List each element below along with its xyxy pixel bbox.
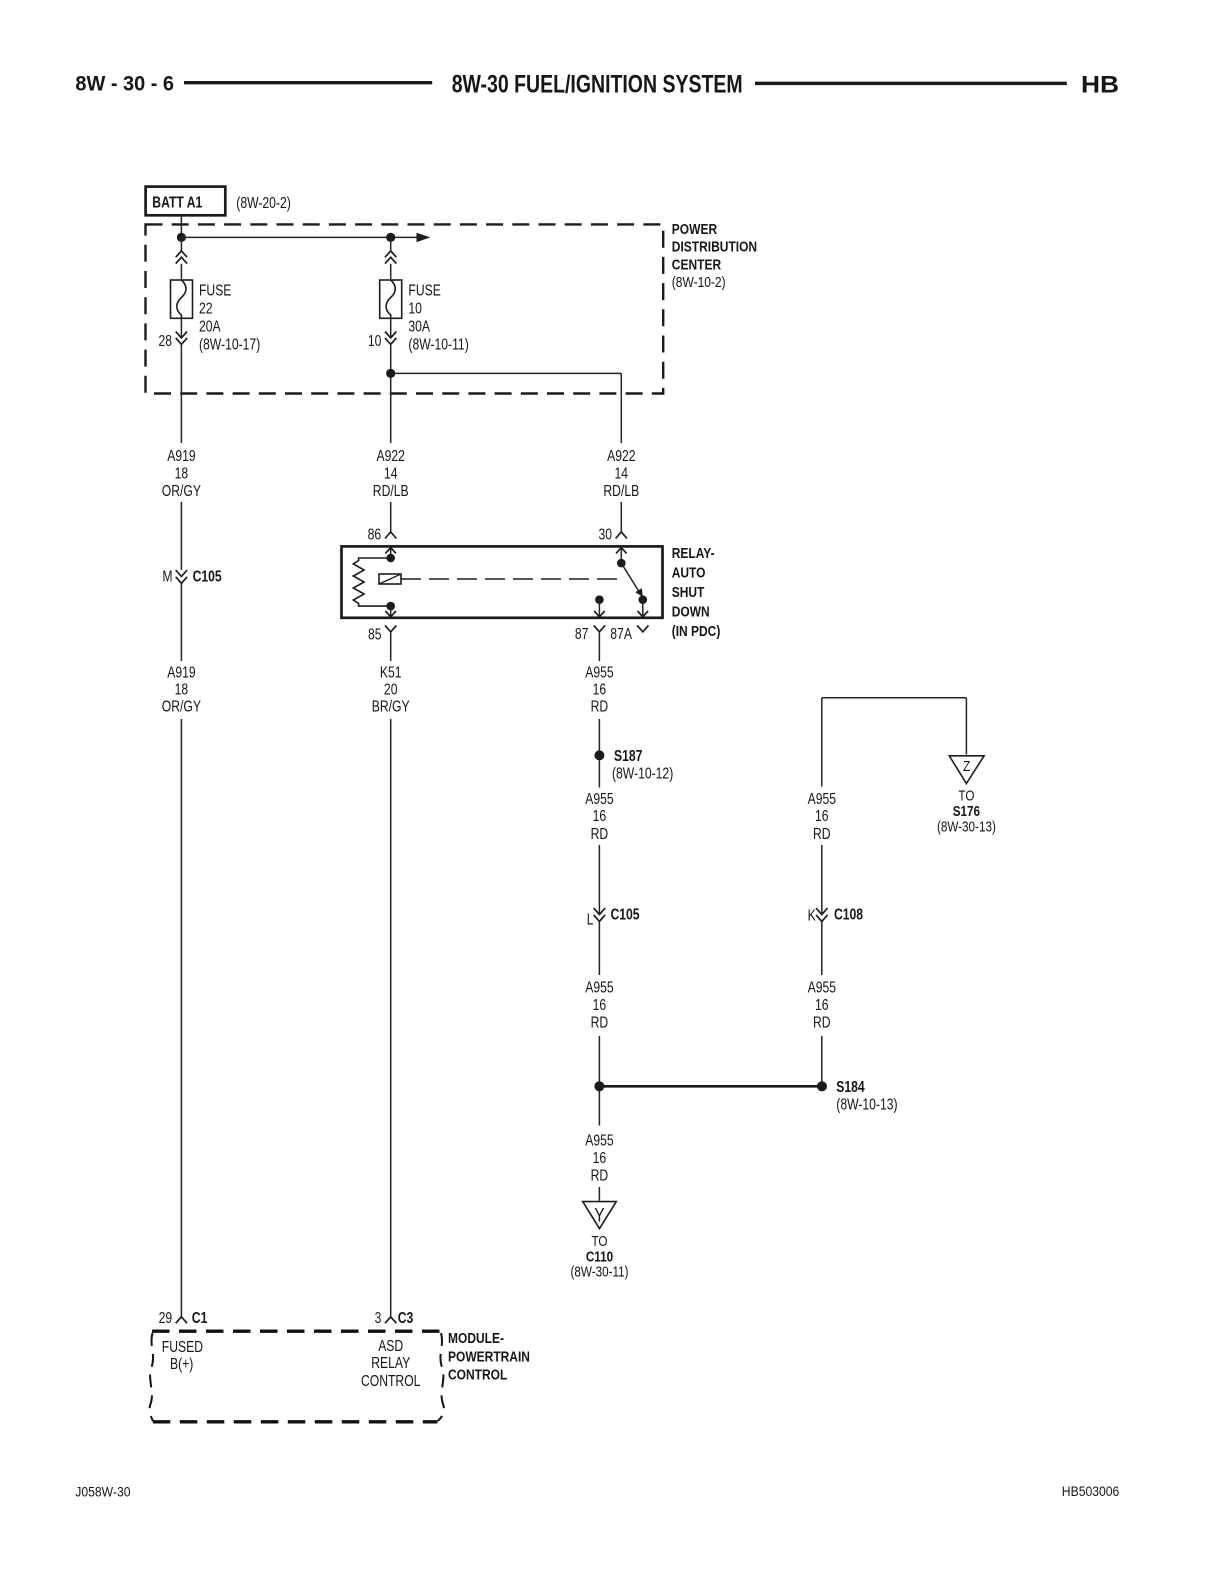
wire: S176 branch horizontal	[822, 697, 967, 699]
svg-text:TO: TO	[958, 787, 974, 804]
module label MODULE-POWERTRAIN CONTROL	[448, 1330, 530, 1383]
wire A955 from pin 87	[598, 632, 600, 661]
svg-text:RD: RD	[591, 1167, 609, 1185]
fuse F10 (FUSE 10 30A)	[380, 280, 402, 318]
svg-text:L: L	[587, 911, 594, 929]
wire A955 below junction	[598, 1091, 600, 1126]
svg-text:(8W-10-2): (8W-10-2)	[672, 274, 726, 291]
svg-text:SHUT: SHUT	[672, 584, 705, 601]
relay switch lever with arrowhead	[621, 563, 643, 597]
svg-text:(IN PDC): (IN PDC)	[672, 623, 721, 640]
svg-text:A922: A922	[607, 447, 635, 465]
relay box (auto shut down relay)	[342, 546, 663, 617]
svg-text:RD: RD	[591, 825, 609, 843]
svg-text:(8W-30-11): (8W-30-11)	[570, 1263, 628, 1280]
svg-text:14: 14	[384, 465, 398, 483]
wire A955 branch down from horizontal	[821, 698, 823, 787]
svg-text:16: 16	[815, 996, 829, 1014]
svg-text:8W - 30 - 6: 8W - 30 - 6	[75, 72, 174, 96]
relay pin 87A internal lead with arrow	[638, 600, 649, 617]
svg-text:Y: Y	[594, 1204, 605, 1226]
relay pin 87 female terminal below box	[594, 625, 605, 631]
splice S184	[817, 1081, 827, 1091]
POWER DISTRIBUTION CENTER dashed box	[146, 224, 664, 393]
node: bus junction at fuse 10	[386, 233, 395, 242]
svg-text:POWERTRAIN: POWERTRAIN	[448, 1348, 530, 1365]
wire label A955 16 RD (branch lower)	[808, 979, 836, 1032]
svg-text:87: 87	[575, 625, 589, 643]
svg-text:14: 14	[615, 465, 629, 483]
relay coil	[353, 558, 390, 606]
svg-text:B(+): B(+)	[170, 1355, 193, 1373]
powertrain control module box (dashed, torn edges)	[150, 1331, 444, 1422]
svg-text:CONTROL: CONTROL	[448, 1366, 507, 1383]
connector chevrons above fuse 10	[385, 251, 396, 264]
wire: battery bus horizontal	[181, 236, 417, 238]
svg-text:M: M	[162, 568, 172, 586]
wire A922 to relay pin 30	[620, 502, 622, 532]
wire: A922 horizontal branch	[391, 372, 622, 374]
connector chevrons below fuse 10	[385, 332, 396, 345]
svg-text:18: 18	[175, 681, 189, 699]
svg-text:20A: 20A	[199, 318, 221, 336]
connector chevrons above fuse 22	[176, 251, 187, 264]
node: A922 junction in PDC	[386, 369, 395, 378]
wire: S176 branch down to Z link	[965, 698, 967, 755]
svg-text:A955: A955	[808, 979, 836, 997]
fuse F22 (FUSE 22 20A)	[171, 280, 193, 318]
svg-text:Z: Z	[963, 758, 970, 775]
node: relay common	[617, 559, 626, 568]
wire: A922 branch down to relay pin 30	[620, 373, 622, 443]
svg-text:(8W-10-17): (8W-10-17)	[199, 336, 260, 354]
node: relay contact 87	[595, 595, 604, 604]
svg-text:FUSED: FUSED	[162, 1338, 203, 1356]
relay pin 87A female terminal below box	[637, 625, 648, 631]
wire label A955 16 RD (branch upper)	[808, 790, 836, 843]
svg-text:(8W-10-13): (8W-10-13)	[836, 1096, 897, 1114]
off-page link Y to C110	[583, 1202, 617, 1229]
wire label A919 18 OR/GY (lower)	[162, 664, 202, 716]
svg-text:S176: S176	[953, 803, 980, 820]
svg-text:RD/LB: RD/LB	[373, 482, 409, 500]
svg-text:RD/LB: RD/LB	[603, 482, 639, 500]
PCM pin 29 function label FUSED B(+)	[162, 1338, 203, 1373]
svg-text:OR/GY: OR/GY	[162, 482, 202, 500]
svg-text:HB503006: HB503006	[1062, 1483, 1120, 1499]
svg-text:(8W-30-13): (8W-30-13)	[937, 818, 996, 835]
svg-text:16: 16	[593, 808, 607, 826]
wire: fuse 10 to terminal 10	[390, 318, 392, 338]
svg-text:RD: RD	[813, 1014, 831, 1032]
PCM connector pin 3 C3	[375, 1309, 414, 1327]
wire A955 branch to S184	[821, 1036, 823, 1082]
svg-text:CONTROL: CONTROL	[361, 1372, 421, 1390]
wire label A922 14 RD/LB (right)	[603, 447, 639, 500]
wire: S184 tie horizontal	[599, 1085, 822, 1088]
svg-text:3: 3	[375, 1309, 382, 1327]
wire label A922 14 RD/LB (left)	[373, 447, 409, 500]
relay pin 86 female terminal	[385, 532, 396, 539]
svg-text:RELAY: RELAY	[371, 1354, 410, 1372]
svg-text:8W-30 FUEL/IGNITION SYSTEM: 8W-30 FUEL/IGNITION SYSTEM	[452, 70, 743, 98]
svg-text:29: 29	[159, 1309, 173, 1327]
wire: fuse 10 feed	[390, 237, 392, 251]
wire: fuse 22 to terminal 28	[180, 318, 182, 338]
svg-text:RD: RD	[591, 1014, 609, 1032]
svg-text:BR/GY: BR/GY	[372, 698, 410, 716]
wire A955 to S184 junction	[598, 1036, 600, 1082]
node: relay coil top	[386, 554, 395, 563]
svg-text:A955: A955	[808, 790, 836, 808]
svg-text:J058W-30: J058W-30	[75, 1484, 130, 1500]
wire A955 to C110 link	[598, 1187, 600, 1202]
svg-text:(8W-20-2): (8W-20-2)	[236, 195, 290, 213]
relay armature symbol	[379, 574, 401, 584]
node: relay contact 87A	[639, 595, 648, 604]
svg-text:A955: A955	[585, 790, 613, 808]
svg-text:RD: RD	[591, 698, 609, 716]
wire A955 below S187	[598, 760, 600, 788]
svg-text:(8W-10-12): (8W-10-12)	[612, 765, 673, 783]
svg-text:16: 16	[593, 1149, 607, 1167]
wire A955 to splice S187	[598, 719, 600, 751]
wire label A955 16 RD (above C105)	[585, 790, 613, 843]
svg-text:C108: C108	[834, 906, 863, 924]
svg-text:A955: A955	[585, 664, 613, 682]
relay label RELAY-AUTO SHUT DOWN (IN PDC)	[672, 545, 721, 639]
splice label S184 (8W-10-13)	[836, 1078, 897, 1114]
splice label S187 (8W-10-12)	[612, 747, 673, 782]
wire A955 to C105	[598, 845, 600, 915]
svg-text:OR/GY: OR/GY	[162, 698, 202, 716]
svg-text:A955: A955	[585, 1132, 613, 1150]
relay pin 87 internal lead with arrow	[594, 600, 605, 617]
PCM connector pin 29 C1	[159, 1309, 208, 1327]
svg-text:16: 16	[593, 681, 607, 699]
PDC label POWER DISTRIBUTION CENTER (8W-10-2)	[672, 221, 757, 291]
svg-text:28: 28	[158, 332, 172, 350]
svg-text:22: 22	[199, 300, 213, 318]
header rule right	[755, 82, 1067, 86]
svg-text:16: 16	[593, 996, 607, 1014]
header rule left	[184, 81, 432, 84]
wire A922 to relay pin 86	[390, 502, 392, 532]
svg-text:CENTER: CENTER	[672, 256, 721, 273]
connector C105 cavity M	[162, 568, 221, 586]
PCM pin 3 function label ASD RELAY CONTROL	[361, 1337, 421, 1390]
svg-text:85: 85	[368, 626, 382, 644]
wire A919 inside PDC	[180, 344, 182, 443]
svg-text:HB: HB	[1081, 72, 1119, 99]
svg-text:30A: 30A	[408, 318, 430, 336]
connector C108 cavity K	[808, 906, 863, 925]
splice S187	[594, 750, 604, 760]
svg-text:86: 86	[368, 526, 382, 544]
svg-text:10: 10	[408, 300, 422, 318]
wire label A955 16 RD (above S184 row)	[585, 979, 613, 1032]
svg-text:POWER: POWER	[672, 221, 717, 238]
relay pin 85 female terminal below box	[385, 625, 396, 631]
svg-text:ASD: ASD	[378, 1337, 403, 1355]
wire: BATT A1 stub into PDC	[180, 216, 182, 234]
fuse 22 labels	[199, 282, 260, 354]
svg-text:C110: C110	[586, 1248, 613, 1265]
svg-text:DOWN: DOWN	[672, 603, 710, 620]
svg-text:TO: TO	[591, 1233, 607, 1250]
svg-text:A922: A922	[377, 447, 405, 465]
wire: chevron to fuse 10	[390, 264, 392, 280]
svg-text:87A: 87A	[610, 625, 632, 643]
battery feed box BATT A1	[146, 187, 226, 216]
wire A955 branch to C108	[821, 845, 823, 915]
wire label A919 18 OR/GY (upper)	[162, 447, 202, 500]
svg-text:A919: A919	[167, 664, 195, 682]
connector C105 cavity L	[587, 906, 640, 929]
node: junction at S184 tie	[594, 1081, 604, 1091]
wire K51 long run to PCM	[390, 719, 392, 1317]
svg-text:C3: C3	[398, 1309, 414, 1327]
svg-text:DISTRIBUTION: DISTRIBUTION	[672, 238, 757, 255]
off-page link label TO C110 (8W-30-11)	[570, 1233, 628, 1280]
svg-text:30: 30	[598, 526, 612, 544]
wire label K51 20 BR/GY	[372, 664, 410, 716]
relay pin 30 female terminal	[616, 532, 627, 539]
wire A955 branch below C108	[821, 921, 823, 975]
fuse 10 labels	[408, 282, 468, 354]
wire: fuse 22 feed	[180, 237, 182, 251]
wire A919 long run to PCM	[180, 719, 182, 1317]
arrow: bus continuation	[417, 233, 431, 242]
connector chevrons below fuse 22	[176, 332, 187, 345]
wire K51 from pin 85	[390, 632, 392, 661]
svg-text:A955: A955	[585, 979, 613, 997]
svg-text:10: 10	[368, 332, 382, 350]
wire A922 inside PDC	[390, 344, 392, 443]
relay actuation dashed link	[401, 578, 619, 580]
svg-text:AUTO: AUTO	[672, 564, 706, 581]
svg-text:FUSE: FUSE	[199, 282, 231, 300]
off-page link Z to S176	[949, 756, 984, 784]
svg-text:C105: C105	[193, 568, 222, 586]
svg-text:C1: C1	[192, 1309, 208, 1327]
wire A919 below C105	[180, 583, 182, 661]
node: relay coil bottom	[386, 602, 395, 611]
wire A919 to C105	[180, 502, 182, 570]
svg-text:RELAY-: RELAY-	[672, 545, 715, 562]
svg-text:MODULE-: MODULE-	[448, 1330, 504, 1347]
svg-text:(8W-10-11): (8W-10-11)	[408, 336, 468, 354]
svg-text:18: 18	[175, 465, 189, 483]
svg-text:16: 16	[815, 808, 829, 826]
svg-text:K: K	[808, 907, 817, 925]
svg-text:BATT A1: BATT A1	[152, 194, 202, 212]
wire label A955 16 RD (below pin 87)	[585, 664, 613, 716]
svg-text:FUSE: FUSE	[408, 282, 440, 300]
wire label A955 16 RD (above C110 link)	[585, 1132, 613, 1185]
svg-text:K51: K51	[380, 664, 402, 682]
svg-text:20: 20	[384, 681, 398, 699]
relay pin 86 internal lead with arrow	[385, 548, 396, 558]
svg-text:RD: RD	[813, 825, 831, 843]
relay pin 30 internal lead with arrow	[616, 548, 627, 564]
wire: chevron to fuse 22	[180, 264, 182, 280]
svg-text:S184: S184	[836, 1078, 864, 1096]
relay pin 85 internal lead with arrow	[385, 606, 396, 617]
node: bus junction at fuse 22	[177, 233, 186, 242]
svg-text:S187: S187	[614, 747, 642, 765]
wire A955 below C105	[598, 921, 600, 975]
svg-text:A919: A919	[167, 447, 195, 465]
svg-text:C105: C105	[611, 906, 640, 924]
off-page link label TO S176 (8W-30-13)	[937, 787, 996, 835]
